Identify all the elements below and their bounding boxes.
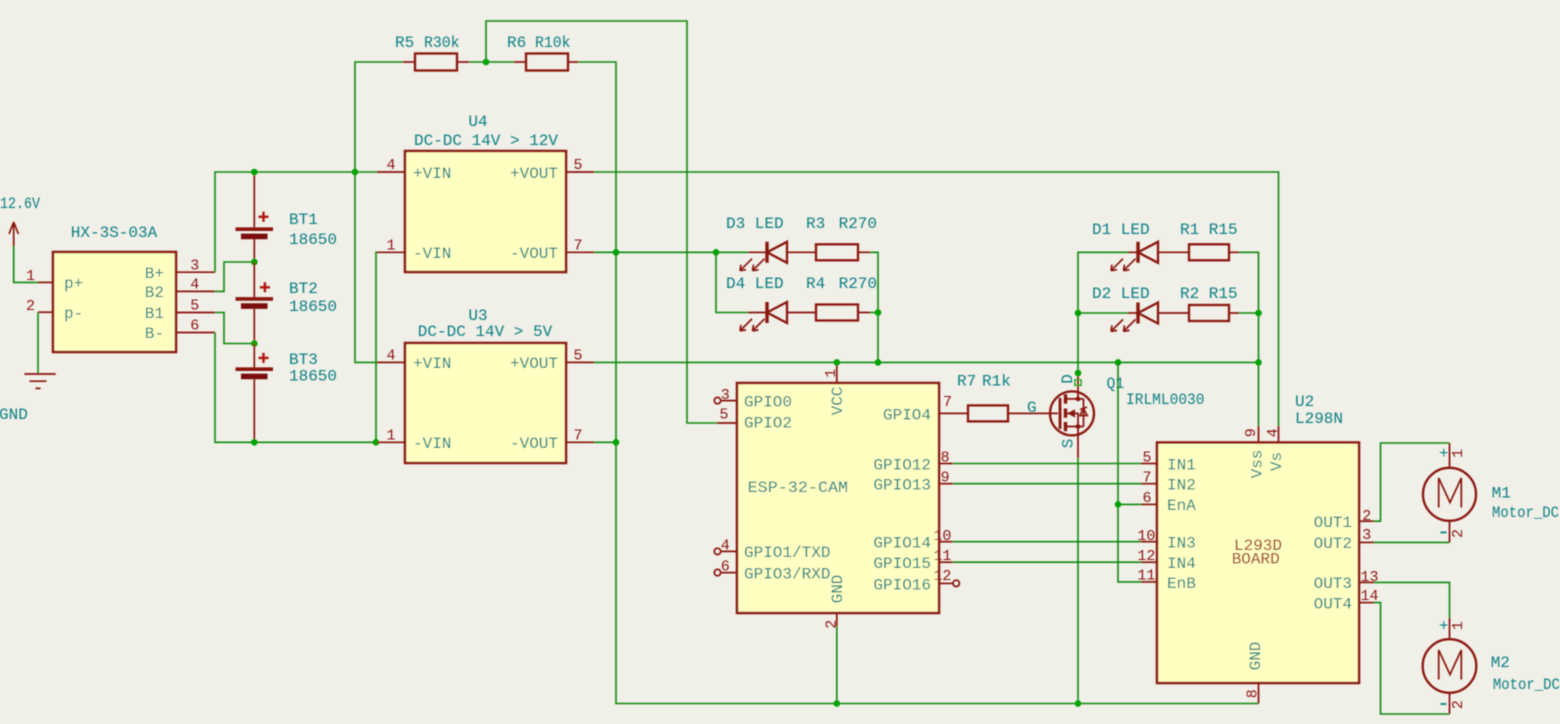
svg-text:5: 5 bbox=[190, 298, 199, 315]
svg-text:p-: p- bbox=[64, 305, 83, 323]
wire: Q1 drain up to D1/D2 column bbox=[1078, 252, 1128, 376]
svg-text:12: 12 bbox=[933, 568, 951, 585]
svg-text:4: 4 bbox=[386, 348, 395, 365]
junction BT2/BT3 (node to B1) bbox=[251, 340, 258, 347]
wire: R5 to R6 bbox=[469, 61, 514, 63]
pin 4 ESP GPIO1/TXD (unconnected) bbox=[714, 548, 720, 554]
svg-text:B1: B1 bbox=[145, 305, 164, 323]
wire: +12V rail from U4 +VOUT to U2 Vs bbox=[594, 172, 1279, 426]
junction BT1/BT2 (node to B2) bbox=[251, 259, 258, 266]
svg-text:U2: U2 bbox=[1295, 393, 1314, 411]
BMS U? HX-3S-03A bbox=[53, 224, 176, 352]
svg-text:R270: R270 bbox=[839, 275, 877, 293]
pin 9 stub ESP GPIO13 bbox=[939, 483, 953, 485]
wire: HX B1 to BT2/BT3 junction bbox=[215, 313, 254, 344]
svg-text:B-: B- bbox=[145, 325, 164, 343]
junction x616 / -VOUT U3 bbox=[613, 439, 620, 446]
svg-text:GPIO16: GPIO16 bbox=[873, 577, 931, 595]
wire: R3 to x878 column bbox=[870, 252, 878, 362]
battery BT3 bbox=[236, 344, 338, 443]
junction Vss column / +5V rail bbox=[1255, 359, 1262, 366]
svg-text:IRLML0030: IRLML0030 bbox=[1126, 391, 1205, 409]
svg-text:R270: R270 bbox=[839, 215, 877, 233]
svg-text:7: 7 bbox=[573, 428, 582, 445]
pin 8 stub U2 GND bbox=[1258, 683, 1260, 704]
svg-text:10: 10 bbox=[1137, 528, 1155, 545]
pin 11 stub U2 EnB bbox=[1141, 581, 1157, 583]
svg-text:IN3: IN3 bbox=[1167, 535, 1196, 553]
svg-text:4: 4 bbox=[190, 277, 199, 294]
junction Q1 drain wire end bbox=[1075, 370, 1082, 377]
svg-text:GPIO12: GPIO12 bbox=[873, 457, 931, 475]
svg-text:B+: B+ bbox=[145, 265, 164, 283]
wire: 12.6V to HX pin 1 bbox=[14, 246, 39, 282]
svg-text:M1: M1 bbox=[1492, 485, 1511, 503]
svg-text:p+: p+ bbox=[64, 275, 83, 293]
svg-text:IN1: IN1 bbox=[1167, 457, 1196, 475]
wire: GPIO12 to U2 IN1 bbox=[953, 463, 1141, 465]
pin 6 ESP GPIO3/RXD (unconnected) bbox=[714, 569, 720, 575]
svg-text:R30k: R30k bbox=[424, 34, 460, 52]
pin 4 stub U4 +VIN bbox=[377, 171, 405, 173]
svg-text:GPIO15: GPIO15 bbox=[873, 555, 931, 573]
pin 2 stub of HX bbox=[38, 311, 53, 313]
wire: Q1 source down to ground rail bbox=[1077, 458, 1079, 704]
diode D1 LED bbox=[1092, 221, 1189, 271]
pin 6 stub of HX (B-) bbox=[176, 332, 215, 334]
svg-text:GPIO1/TXD: GPIO1/TXD bbox=[744, 544, 830, 562]
svg-text:EnB: EnB bbox=[1167, 575, 1196, 593]
svg-text:EnA: EnA bbox=[1167, 497, 1196, 515]
pin 3 stub of HX (B+) bbox=[176, 271, 215, 273]
svg-text:13: 13 bbox=[1360, 569, 1378, 586]
wire: divider tap to top rail over to GPIO2 column bbox=[486, 21, 717, 423]
pin 7 stub U2 IN2 bbox=[1141, 483, 1157, 485]
ground symbol bbox=[0, 374, 56, 424]
svg-text:2: 2 bbox=[1362, 508, 1371, 525]
svg-text:BT1: BT1 bbox=[289, 211, 318, 229]
svg-text:OUT3: OUT3 bbox=[1314, 575, 1352, 593]
junction battery top / +VIN rail bbox=[251, 169, 258, 176]
junction EnA tap bbox=[1115, 501, 1122, 508]
pin 6 stub U2 EnA bbox=[1141, 503, 1157, 505]
svg-text:1: 1 bbox=[386, 428, 395, 445]
pin 5 stub ESP GPIO2 bbox=[717, 422, 737, 424]
wire: GPIO13 to U2 IN2 bbox=[953, 483, 1141, 485]
wire: +5V down to EnA and EnB bbox=[1118, 362, 1141, 582]
pin 3 ESP GPIO0 (unconnected) bbox=[714, 397, 720, 403]
svg-text:U4: U4 bbox=[468, 113, 487, 131]
pin 4 stub of HX (B2) bbox=[176, 290, 215, 292]
svg-text:GPIO4: GPIO4 bbox=[883, 407, 931, 425]
svg-text:BT2: BT2 bbox=[289, 280, 318, 298]
wire: HX B+ up to battery top rail bbox=[215, 172, 377, 272]
driver module U2 L298N bbox=[1157, 393, 1359, 683]
svg-text:6: 6 bbox=[190, 318, 199, 335]
pin 11 stub ESP GPIO15 bbox=[939, 561, 953, 563]
pin 14 stub U2 OUT4 bbox=[1359, 602, 1374, 604]
pin 10 stub U2 IN3 bbox=[1141, 541, 1157, 543]
svg-text:GPIO0: GPIO0 bbox=[744, 394, 792, 412]
svg-text:IN2: IN2 bbox=[1167, 477, 1196, 495]
wire: R2 to Vss column bbox=[1239, 312, 1259, 314]
resistor R7 bbox=[957, 373, 1058, 422]
pin 5 stub of HX (B1) bbox=[176, 312, 215, 314]
DC-DC converter U4 bbox=[405, 113, 566, 272]
pin 1 stub of HX bbox=[38, 281, 53, 283]
motor M1 bbox=[1423, 443, 1559, 542]
svg-text:OUT2: OUT2 bbox=[1314, 535, 1352, 553]
svg-text:-VOUT: -VOUT bbox=[510, 245, 558, 263]
svg-text:3: 3 bbox=[190, 258, 199, 275]
svg-text:+VOUT: +VOUT bbox=[510, 355, 558, 373]
pin 13 stub U2 OUT3 bbox=[1359, 581, 1374, 583]
junction +5V rail / VCC bbox=[834, 359, 841, 366]
junction x878 / +5V rail bbox=[875, 359, 882, 366]
svg-text:S: S bbox=[1060, 439, 1078, 449]
svg-text:IN4: IN4 bbox=[1167, 555, 1196, 573]
svg-text:DC-DC 14V > 12V: DC-DC 14V > 12V bbox=[414, 132, 558, 150]
svg-text:DC-DC 14V > 5V: DC-DC 14V > 5V bbox=[418, 323, 553, 341]
svg-text:5: 5 bbox=[1142, 450, 1151, 467]
svg-text:R7: R7 bbox=[957, 373, 976, 391]
svg-text:G: G bbox=[1027, 399, 1037, 417]
svg-text:1: 1 bbox=[1450, 621, 1467, 630]
svg-text:D1 LED: D1 LED bbox=[1092, 221, 1150, 239]
junction x355 / +VIN U4 row bbox=[352, 169, 359, 176]
junction x1078 / D2 row bbox=[1075, 310, 1082, 317]
wire: HX B- down to battery minus rail bbox=[215, 333, 377, 443]
svg-text:L298N: L298N bbox=[1295, 410, 1343, 428]
svg-text:D4 LED: D4 LED bbox=[726, 275, 784, 293]
svg-text:OUT4: OUT4 bbox=[1314, 596, 1352, 614]
svg-text:9: 9 bbox=[1243, 428, 1260, 437]
svg-text:Vss: Vss bbox=[1249, 450, 1267, 479]
svg-text:7: 7 bbox=[1142, 470, 1151, 487]
svg-text:GPIO2: GPIO2 bbox=[744, 415, 792, 433]
transistor Q1 IRLML0030 bbox=[1050, 374, 1205, 458]
svg-text:-VIN: -VIN bbox=[413, 435, 451, 453]
motor M2 bbox=[1423, 618, 1560, 715]
pin 7 stub U3 -VOUT bbox=[566, 441, 594, 443]
svg-text:OUT1: OUT1 bbox=[1314, 514, 1352, 532]
pin 5 stub U4 +VOUT bbox=[566, 171, 594, 173]
svg-text:8: 8 bbox=[1245, 689, 1262, 698]
svg-text:Vs: Vs bbox=[1268, 452, 1286, 471]
wire: HX pin 2 to ground bbox=[37, 312, 39, 374]
svg-text:5: 5 bbox=[573, 348, 582, 365]
pin 9 stub U2 Vss bbox=[1258, 426, 1260, 443]
wire: EnA tap to pin bbox=[1118, 503, 1141, 505]
junction x878 / D4 row bbox=[875, 309, 882, 316]
svg-text:4: 4 bbox=[386, 157, 395, 174]
pin 10 stub ESP GPIO14 bbox=[939, 541, 953, 543]
svg-text:6: 6 bbox=[721, 559, 730, 576]
wire: +5V rail from U3 +VOUT to U2 Vss column bbox=[594, 361, 1259, 363]
pin 3 stub U2 OUT2 bbox=[1359, 541, 1374, 543]
svg-text:B2: B2 bbox=[145, 284, 164, 302]
svg-text:R4: R4 bbox=[806, 275, 825, 293]
svg-text:2: 2 bbox=[1450, 700, 1467, 709]
svg-text:+VOUT: +VOUT bbox=[510, 165, 558, 183]
svg-text:Motor_DC: Motor_DC bbox=[1493, 676, 1560, 694]
junction Vss column / D2 row bbox=[1255, 310, 1262, 317]
svg-text:1: 1 bbox=[386, 238, 395, 255]
svg-text:M2: M2 bbox=[1491, 654, 1510, 672]
svg-text:ESP-32-CAM: ESP-32-CAM bbox=[748, 479, 849, 497]
resistor R3 bbox=[806, 215, 877, 260]
svg-text:GPIO3/RXD: GPIO3/RXD bbox=[744, 566, 830, 584]
svg-text:5: 5 bbox=[719, 407, 728, 424]
wire: OUT4 around to M2 minus bbox=[1374, 603, 1450, 714]
svg-text:10: 10 bbox=[933, 528, 951, 545]
svg-text:+: + bbox=[1439, 445, 1449, 463]
wire: ESP GND down to ground rail bbox=[836, 626, 838, 704]
svg-text:D3 LED: D3 LED bbox=[726, 215, 784, 233]
svg-text:VCC: VCC bbox=[829, 387, 847, 416]
svg-text:12: 12 bbox=[1137, 548, 1155, 565]
pin 1 stub U4 -VIN bbox=[377, 251, 405, 253]
wire: OUT3 to M2 plus bbox=[1374, 582, 1450, 618]
svg-text:11: 11 bbox=[1137, 568, 1155, 585]
svg-text:2: 2 bbox=[1450, 529, 1467, 538]
svg-text:BOARD: BOARD bbox=[1232, 551, 1280, 569]
svg-text:Q1: Q1 bbox=[1107, 375, 1125, 393]
svg-text:R2 R15: R2 R15 bbox=[1180, 285, 1238, 303]
wire: R5 left / +VIN column bbox=[355, 62, 403, 362]
wire: OUT2 to M1 minus bbox=[1374, 541, 1450, 543]
svg-text:6: 6 bbox=[1142, 490, 1151, 507]
wire: U3 -VOUT to x616 column bbox=[594, 441, 616, 443]
pin 12 ESP GPIO16 (unconnected) bbox=[939, 582, 953, 584]
wire: U4 -VOUT row to D3 bbox=[594, 251, 748, 253]
svg-text:4: 4 bbox=[1265, 428, 1282, 437]
wire: R4 to x878 column bbox=[870, 312, 878, 314]
pin 4 stub U3 +VIN bbox=[377, 361, 405, 363]
diode D2 LED bbox=[1078, 285, 1189, 331]
svg-text:2: 2 bbox=[824, 620, 841, 629]
svg-text:GND: GND bbox=[0, 406, 28, 424]
power flag 12.6V bbox=[0, 195, 40, 246]
svg-text:R10k: R10k bbox=[535, 34, 571, 52]
junction ground rail / ESP GND bbox=[834, 700, 841, 707]
svg-text:1: 1 bbox=[26, 268, 35, 285]
wire: HX B2 to BT1/BT2 junction bbox=[215, 262, 254, 291]
wire: GPIO15 to U2 IN4 bbox=[953, 561, 1141, 563]
pin 5 stub U3 +VOUT bbox=[566, 361, 594, 363]
svg-text:R1k: R1k bbox=[982, 373, 1011, 391]
svg-text:D2 LED: D2 LED bbox=[1092, 285, 1150, 303]
DC-DC converter U3 bbox=[405, 307, 566, 463]
svg-text:18650: 18650 bbox=[289, 368, 337, 386]
svg-text:18650: 18650 bbox=[289, 298, 337, 316]
svg-text:7: 7 bbox=[943, 394, 952, 411]
svg-text:R3: R3 bbox=[806, 215, 825, 233]
svg-text:-VIN: -VIN bbox=[413, 245, 451, 263]
wire: OUT1 to M1 plus bbox=[1374, 443, 1450, 521]
junction +5V rail / EnA-EnB column bbox=[1115, 359, 1122, 366]
pin pad square on Q1 drain bbox=[1075, 380, 1081, 386]
junction minus rail / U4 -VIN column bbox=[373, 439, 380, 446]
svg-text:GND: GND bbox=[829, 575, 847, 604]
pin 2 stub ESP GND bbox=[836, 613, 838, 626]
pin 7 stub U4 -VOUT bbox=[566, 251, 594, 253]
wire: branch down to D4 row bbox=[716, 252, 748, 312]
junction battery bottom / minus rail bbox=[251, 439, 258, 446]
pin 7 stub ESP GPIO4 bbox=[939, 412, 968, 414]
svg-text:+: + bbox=[1439, 618, 1449, 636]
junction R5/R6 tap bbox=[483, 59, 490, 66]
svg-text:GND: GND bbox=[1247, 642, 1265, 671]
svg-text:GPIO13: GPIO13 bbox=[873, 477, 931, 495]
wire: U4 -VIN down to minus rail bbox=[376, 252, 377, 442]
diode D3 LED bbox=[726, 215, 816, 271]
svg-text:5: 5 bbox=[573, 157, 582, 174]
junction D3/D4 branch bbox=[713, 249, 720, 256]
pin 1 stub ESP VCC bbox=[836, 362, 838, 383]
svg-text:9: 9 bbox=[941, 470, 950, 487]
wire: R1 to Vss column bbox=[1239, 252, 1259, 426]
svg-text:2: 2 bbox=[26, 298, 35, 315]
svg-text:7: 7 bbox=[573, 238, 582, 255]
svg-text:1: 1 bbox=[1450, 449, 1467, 458]
wire: R6 right down the x616 column to bottom ground rail bbox=[578, 62, 1259, 704]
resistor R6 bbox=[507, 34, 578, 71]
svg-text:11: 11 bbox=[933, 548, 951, 565]
pin 1 stub U3 -VIN bbox=[377, 441, 405, 443]
module A1 ESP-32-CAM bbox=[737, 383, 939, 613]
svg-text:-VOUT: -VOUT bbox=[510, 435, 558, 453]
svg-text:12.6V: 12.6V bbox=[0, 195, 40, 213]
resistor R4 bbox=[806, 275, 877, 321]
junction ground rail / Q1 source bbox=[1075, 700, 1082, 707]
svg-text:3: 3 bbox=[721, 387, 730, 404]
svg-text:GPIO14: GPIO14 bbox=[873, 535, 931, 553]
wire: GPIO14 to U2 IN3 bbox=[953, 541, 1141, 543]
pin 12 stub U2 IN4 bbox=[1141, 561, 1157, 563]
svg-text:Motor_DC: Motor_DC bbox=[1492, 504, 1559, 522]
battery BT2 bbox=[236, 262, 338, 344]
svg-text:8: 8 bbox=[941, 450, 950, 467]
pin 8 stub ESP GPIO12 bbox=[939, 463, 953, 465]
svg-text:+VIN: +VIN bbox=[413, 165, 451, 183]
svg-text:R6: R6 bbox=[507, 34, 526, 52]
svg-text:R5: R5 bbox=[395, 34, 414, 52]
svg-text:3: 3 bbox=[1362, 527, 1371, 544]
resistor R1 bbox=[1180, 221, 1239, 260]
pin 5 stub U2 IN1 bbox=[1141, 463, 1157, 465]
svg-text:R1 R15: R1 R15 bbox=[1180, 221, 1238, 239]
svg-text:18650: 18650 bbox=[289, 231, 337, 249]
battery BT1 bbox=[236, 172, 338, 262]
svg-text:1: 1 bbox=[823, 369, 840, 378]
diode D4 LED bbox=[726, 275, 816, 331]
svg-text:+VIN: +VIN bbox=[413, 355, 451, 373]
resistor R5 bbox=[395, 34, 469, 71]
pin 4 stub U2 Vs bbox=[1278, 426, 1280, 443]
svg-text:HX-3S-03A: HX-3S-03A bbox=[71, 224, 158, 242]
svg-text:BT3: BT3 bbox=[289, 351, 318, 369]
pin 2 stub U2 OUT1 bbox=[1359, 520, 1374, 522]
resistor R2 bbox=[1180, 285, 1239, 321]
svg-text:4: 4 bbox=[721, 538, 730, 555]
junction x616 / -VOUT U4 bbox=[613, 249, 620, 256]
